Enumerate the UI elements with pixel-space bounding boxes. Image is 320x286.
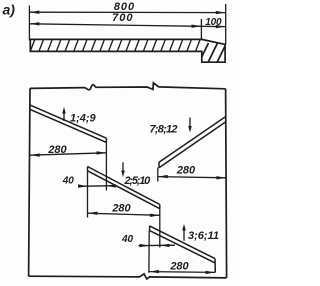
- svg-text:7;8;12: 7;8;12: [150, 124, 178, 136]
- svg-text:280: 280: [47, 144, 67, 156]
- dimension line 280 (plank 4): [149, 271, 215, 274]
- extension line left (top view): [28, 6, 30, 41]
- extension line from plank 2 start: [87, 171, 89, 218]
- plan border bottom edge with break mark: [29, 274, 227, 279]
- label arrow plank 3: [189, 118, 191, 131]
- dimension line 700: [29, 24, 201, 27]
- svg-text:700: 700: [112, 12, 133, 24]
- label arrow plank 4: [183, 227, 185, 241]
- svg-text:280: 280: [169, 261, 189, 273]
- plank 7;8;12: [159, 117, 226, 163]
- plan border left edge: [29, 88, 30, 276]
- extension line below plank 3 end: [157, 168, 159, 182]
- svg-text:40: 40: [62, 175, 75, 186]
- label arrow plank 2: [122, 162, 124, 174]
- plan border right edge: [226, 89, 227, 278]
- dimension line 280 (plank 1): [30, 153, 107, 155]
- extension line from plank 4 start: [148, 231, 150, 273]
- label arrow plank 1: [63, 110, 65, 122]
- svg-text:280: 280: [111, 203, 131, 215]
- svg-text:40: 40: [121, 234, 134, 245]
- plank 1;4;9: [30, 105, 107, 138]
- extension line right (top view): [225, 4, 227, 45]
- extension line middle x=201 (top view): [200, 19, 202, 40]
- extension line from plank 2 end: [159, 209, 161, 248]
- dimension line 280 (plank 3): [158, 177, 227, 178]
- svg-text:280: 280: [176, 164, 196, 176]
- dimension line 100: [201, 25, 225, 27]
- plank 3;6;11: [150, 226, 215, 259]
- board cross-section outline: [30, 39, 225, 62]
- svg-text:1;4;9: 1;4;9: [70, 113, 97, 125]
- svg-text:a): a): [3, 2, 16, 18]
- plank 2;5;10: [88, 167, 160, 205]
- dimension line 40 (upper): [78, 185, 115, 188]
- dimension line 280 (plank 2): [88, 213, 160, 215]
- extension line below plank 1 end: [105, 142, 107, 190]
- svg-text:3;6;11: 3;6;11: [188, 230, 219, 242]
- svg-text:100: 100: [205, 17, 222, 28]
- dimension line 40 (lower): [139, 244, 176, 247]
- plan border top edge with two break marks: [30, 83, 226, 90]
- board hatching: [30, 39, 227, 64]
- dimension line 800: [29, 11, 225, 13]
- svg-text:2;5;10: 2;5;10: [124, 175, 152, 187]
